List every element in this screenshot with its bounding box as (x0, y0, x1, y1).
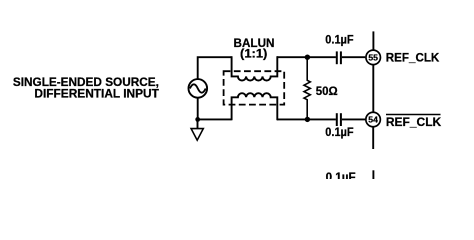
svg-text:55: 55 (368, 52, 378, 62)
svg-text:50Ω: 50Ω (316, 84, 338, 98)
node junction at ground (195, 117, 200, 122)
wire cap bottom to pin 54 (342, 118, 365, 120)
wire balun top output rail (277, 56, 336, 58)
node junction bottom rail (305, 117, 310, 122)
balun T1 primary winding (232, 56, 278, 80)
wire source top to balun (198, 57, 232, 79)
svg-text:54: 54 (368, 115, 378, 125)
svg-text:0.1µF: 0.1µF (326, 171, 356, 179)
net label REF_CLK bar (386, 115, 442, 129)
wire ground node to balun bottom (198, 118, 232, 120)
wire chip edge next row (cut off) (372, 170, 374, 179)
balun T1 secondary winding (232, 93, 278, 120)
wire chip edge below pin 54 (372, 126, 374, 149)
wire source bottom to ground node (197, 98, 199, 120)
wire chip edge between pin 55 and pin 54 (372, 64, 374, 113)
node junction top rail (305, 55, 310, 60)
capacitor C bottom 0.1uF (337, 113, 341, 126)
balun T1 label (234, 36, 275, 61)
ground (191, 119, 203, 140)
svg-text:0.1µF: 0.1µF (325, 34, 353, 47)
capacitor C top 0.1uF (337, 51, 341, 64)
wire balun bottom output rail (277, 118, 336, 120)
balun T1 dashed box (224, 71, 285, 104)
pin 54 (366, 112, 381, 127)
voltage source V1 (189, 79, 208, 98)
svg-text:0.1µF: 0.1µF (325, 126, 353, 139)
svg-text:REF_CLK: REF_CLK (386, 51, 440, 65)
pin 55 (366, 50, 381, 65)
svg-text:DIFFERENTIAL INPUT: DIFFERENTIAL INPUT (34, 87, 159, 100)
label SINGLE-ENDED SOURCE, DIFFERENTIAL INPUT (13, 76, 160, 100)
wire chip edge above pin 55 (372, 31, 374, 50)
resistor 50 ohm (304, 57, 310, 119)
svg-text:REF_CLK: REF_CLK (386, 115, 442, 129)
wire cap top to pin 55 (342, 56, 365, 58)
svg-text:(1:1): (1:1) (240, 46, 267, 60)
